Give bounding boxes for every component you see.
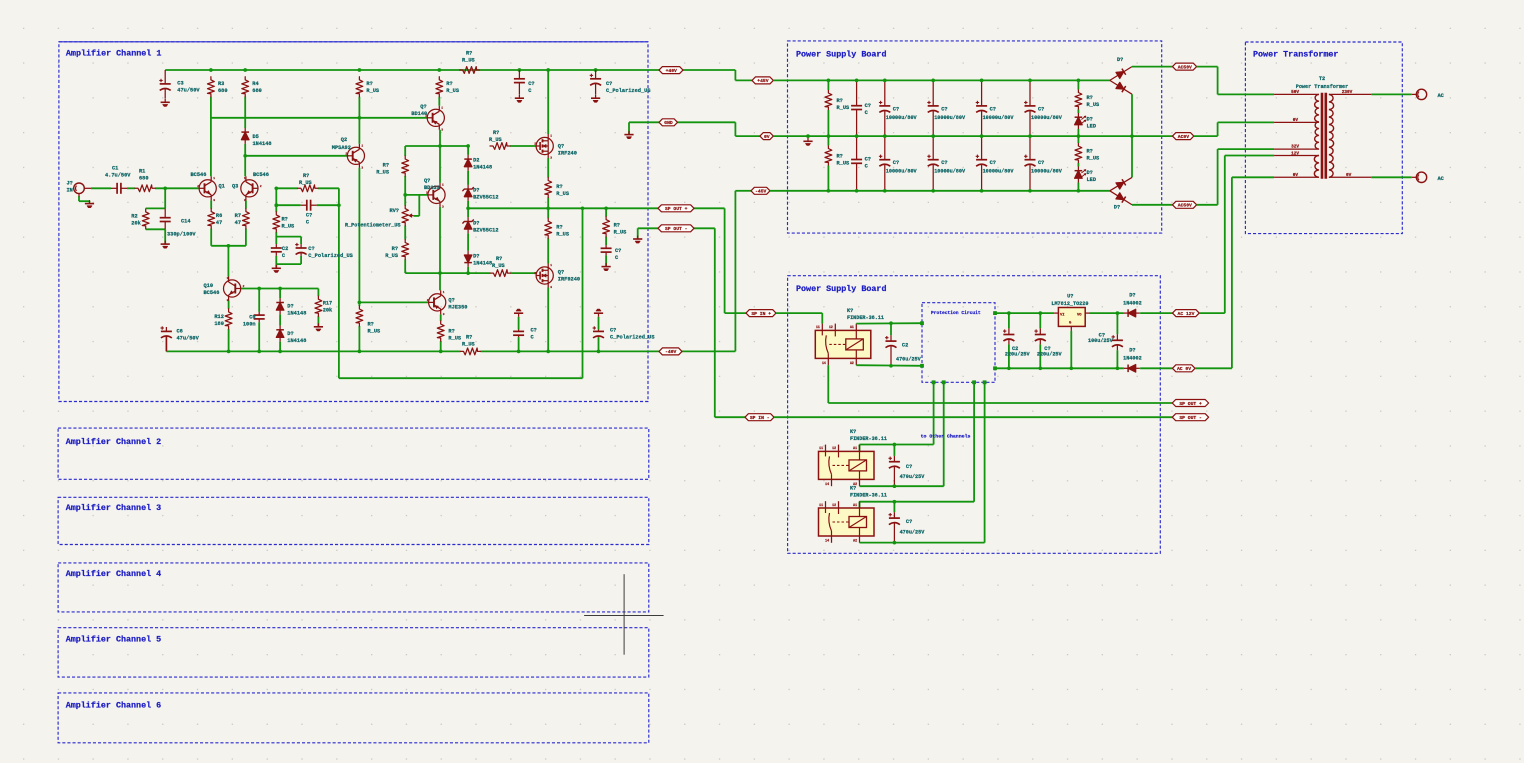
resistor R17 20k (315, 296, 333, 316)
svg-text:K?: K? (847, 308, 853, 314)
svg-text:Q1: Q1 (219, 183, 225, 189)
svg-text:C2: C2 (902, 342, 908, 348)
svg-text:1: 1 (550, 135, 552, 138)
wire AC 0V right (1195, 367, 1232, 369)
capacitor C8 feedback (301, 200, 317, 226)
svg-text:VI: VI (1060, 313, 1065, 317)
junction (227, 350, 231, 354)
hier label AC50V bottom (1173, 201, 1197, 208)
resistor R23 R_US led top (1075, 90, 1100, 110)
hier label AC50V top (1173, 63, 1197, 70)
wire (279, 289, 281, 299)
junction (1007, 311, 1011, 315)
svg-text:C1: C1 (112, 165, 118, 171)
junction (517, 350, 521, 354)
svg-text:R12: R12 (214, 314, 224, 320)
svg-text:C?: C? (528, 81, 534, 87)
wire GND to 0V (678, 121, 736, 123)
capacitor C3 47u/50V sym (159, 70, 200, 99)
hier label AC0V (1173, 133, 1194, 140)
wire +40V to +45V (683, 69, 735, 71)
svg-text:R_US: R_US (376, 169, 390, 175)
svg-text:FINDER-36.11: FINDER-36.11 (850, 436, 887, 442)
svg-text:+40V: +40V (666, 68, 677, 74)
junction (243, 68, 247, 72)
junction (827, 134, 831, 138)
wire (244, 144, 246, 176)
wire K3 coil bottom (860, 542, 985, 544)
wire (91, 187, 111, 189)
svg-text:680: 680 (139, 175, 149, 181)
wire (276, 187, 298, 189)
capacitor C1 4.7u/50V (105, 165, 131, 194)
svg-text:C?: C? (1038, 106, 1044, 112)
svg-text:AC: AC (1438, 93, 1445, 99)
junction (358, 301, 362, 305)
hier label SP OUT + right (1172, 400, 1208, 407)
junction (931, 189, 935, 193)
junction (227, 244, 231, 248)
svg-text:C2: C2 (282, 246, 288, 252)
wire (155, 187, 199, 189)
wire (440, 341, 442, 351)
svg-text:1N4148: 1N4148 (287, 311, 306, 317)
wire SP OUT+ to SP IN+ (694, 207, 725, 209)
svg-text:BD139: BD139 (424, 185, 440, 191)
svg-text:470u/25V: 470u/25V (900, 530, 926, 536)
svg-text:R?: R? (392, 246, 398, 252)
svg-text:Amplifier Channel 4: Amplifier Channel 4 (66, 569, 162, 579)
transistor Q7 BD140 (411, 104, 444, 131)
junction (1028, 189, 1032, 193)
svg-text:FINDER-36.11: FINDER-36.11 (847, 315, 884, 321)
ground on 0V rail (803, 138, 812, 146)
svg-text:C?: C? (615, 248, 621, 254)
junction (827, 189, 831, 193)
wire (258, 322, 260, 351)
hier label 0V (760, 133, 773, 140)
svg-text:R?: R? (614, 222, 620, 228)
svg-text:Amplifier Channel 5: Amplifier Channel 5 (66, 635, 162, 645)
svg-text:R_US: R_US (1087, 155, 1101, 161)
svg-text:C?: C? (865, 103, 871, 109)
wire (467, 171, 469, 185)
svg-text:R_US: R_US (556, 232, 570, 238)
svg-text:IN: IN (67, 187, 73, 193)
svg-text:R_US: R_US (614, 229, 628, 235)
sheet box Amplifier Channel 6 (58, 693, 649, 743)
junction (209, 68, 213, 72)
svg-text:SP IN +: SP IN + (751, 311, 771, 317)
wire rectifier center (1131, 94, 1133, 177)
wire (258, 289, 260, 312)
svg-text:R1: R1 (139, 168, 145, 174)
svg-text:C?: C? (941, 106, 947, 112)
svg-text:Q2: Q2 (341, 137, 347, 143)
svg-text:2: 2 (534, 272, 536, 275)
diode D2 1N4148 (464, 155, 492, 171)
svg-text:1: 1 (227, 277, 229, 280)
svg-text:T2: T2 (1319, 76, 1325, 82)
junction (546, 350, 550, 354)
wire AC50V to xfmr (1197, 66, 1218, 68)
wire (164, 229, 166, 243)
junction (1028, 79, 1032, 83)
wire SP OUT- drop (714, 228, 716, 417)
svg-text:Amplifier Channel 3: Amplifier Channel 3 (66, 503, 162, 513)
capacitor C21 10000u/80V top (879, 80, 918, 136)
diode D14 rectifier (1108, 174, 1134, 194)
hier label AC 12V (1173, 310, 1200, 317)
resistor R19 R_US feedback (298, 173, 318, 192)
svg-text:0V: 0V (1293, 173, 1299, 178)
svg-text:SP OUT +: SP OUT + (1179, 401, 1202, 407)
svg-text:2: 2 (534, 143, 536, 146)
wire (211, 117, 428, 119)
svg-text:Power Transformer: Power Transformer (1296, 84, 1348, 90)
svg-text:10000u/80V: 10000u/80V (1031, 115, 1063, 121)
svg-text:R?: R? (383, 162, 389, 168)
junction (358, 68, 362, 72)
wire (279, 342, 281, 352)
svg-text:R?: R? (1087, 95, 1093, 101)
wire (210, 229, 212, 246)
svg-text:10000u/80V: 10000u/80V (983, 169, 1015, 175)
svg-text:R_US: R_US (462, 58, 476, 64)
junction (257, 350, 261, 354)
wire (510, 145, 536, 147)
wire (318, 187, 339, 189)
svg-text:1: 1 (550, 264, 552, 267)
wire (827, 166, 829, 191)
wire reg gnd (1070, 331, 1072, 368)
svg-text:C3: C3 (177, 81, 183, 87)
junction (893, 443, 897, 447)
wire (317, 289, 319, 297)
resistor R3 680 (208, 77, 228, 97)
connector J1 IN (67, 180, 92, 196)
wire (598, 317, 600, 330)
relay K1 FINDER-36.11 (815, 308, 884, 365)
wire -40V out (682, 350, 735, 352)
wire rise to 32V pin (1217, 149, 1219, 205)
hier label SP IN - (745, 414, 774, 421)
capacitor C4 bypass (514, 70, 535, 95)
junction (893, 500, 897, 504)
wire K1 coil top to protection (856, 322, 922, 324)
wire (547, 208, 549, 218)
wire (300, 237, 302, 245)
wire (1077, 80, 1079, 89)
svg-text:C?: C? (865, 157, 871, 163)
wire SP OUT+ drop (724, 208, 726, 313)
svg-text:680: 680 (218, 88, 228, 94)
wire primary bottom (1371, 176, 1411, 178)
svg-text:220u/25V: 220u/25V (1005, 352, 1031, 358)
junction (466, 271, 470, 275)
svg-text:AC0V: AC0V (1178, 134, 1189, 140)
wire (1077, 136, 1079, 143)
svg-text:C?: C? (893, 106, 899, 112)
wire (275, 232, 277, 244)
svg-text:C14: C14 (181, 219, 191, 225)
capacitor C13 470u/25V (885, 335, 921, 366)
wire C15 top (1039, 313, 1041, 328)
wire into -45V label (735, 190, 751, 192)
wire (275, 264, 277, 268)
svg-text:MPSA92: MPSA92 (332, 145, 351, 151)
junction (855, 79, 859, 83)
svg-text:R?: R? (448, 328, 454, 334)
wire (358, 168, 360, 303)
transformer T2 pins (1274, 90, 1371, 178)
wire (358, 302, 360, 306)
capacitor C25 psu bottom (851, 136, 871, 191)
svg-text:47u/50V: 47u/50V (177, 88, 200, 94)
svg-text:A1: A1 (853, 503, 857, 507)
resistor R9 R_US bias2 (385, 240, 408, 260)
junction (337, 203, 341, 207)
ground at input jack (85, 200, 94, 208)
wire C16 bottom (1116, 350, 1118, 368)
capacitor C24 10000u/80V top (1024, 80, 1063, 136)
capacitor C16 100u/25V (1088, 333, 1123, 351)
svg-text:BC546: BC546 (204, 290, 220, 296)
wire (79, 200, 90, 202)
junction (931, 134, 935, 138)
svg-text:680: 680 (252, 88, 262, 94)
wire K2 stub (859, 445, 861, 452)
svg-text:R_US: R_US (492, 263, 506, 269)
sheet box Power Supply Board 2 (788, 276, 1161, 554)
svg-text:D?: D? (473, 253, 479, 259)
global label SP OUT + (658, 205, 694, 212)
wire (279, 314, 281, 325)
wire (275, 256, 277, 264)
wire (827, 110, 829, 136)
resistor R7 R_US rail (460, 51, 480, 74)
svg-text:10000u/80V: 10000u/80V (934, 169, 966, 175)
cursor crosshair (584, 574, 664, 655)
sheet pin (993, 366, 997, 370)
svg-text:12: 12 (829, 325, 833, 329)
wire (146, 207, 166, 209)
relay K2 FINDER-36.11 (819, 429, 888, 486)
regulator U7 LM7812_TO220 (1051, 293, 1089, 331)
sheet box Amplifier Channel 2 (58, 428, 649, 479)
capacitor C20 psu top (851, 80, 871, 136)
wire (440, 314, 442, 321)
svg-text:R?: R? (1087, 148, 1093, 154)
svg-text:LM7812_TO220: LM7812_TO220 (1051, 301, 1088, 307)
wire (1077, 183, 1079, 191)
wire into SP IN- label (715, 416, 745, 418)
svg-text:LED: LED (1087, 177, 1097, 183)
svg-text:14: 14 (825, 539, 829, 543)
svg-text:to Other Channels: to Other Channels (921, 434, 971, 440)
svg-text:D2: D2 (473, 157, 479, 163)
svg-text:C?: C? (990, 106, 996, 112)
wire (244, 97, 246, 128)
junction (278, 350, 282, 354)
junction (1038, 311, 1042, 315)
LED D11 bottom (1075, 167, 1096, 183)
svg-text:AC50V: AC50V (1178, 203, 1192, 209)
svg-text:AC 0V: AC 0V (1177, 366, 1191, 372)
svg-text:0V: 0V (1346, 173, 1352, 178)
wire into 0V label (735, 135, 760, 137)
junction (1130, 134, 1134, 138)
ground below C2 (272, 265, 281, 273)
wire SP IN - to SP OUT - (774, 416, 1172, 418)
svg-text:R_US: R_US (489, 137, 503, 143)
svg-text:D?: D? (473, 220, 479, 226)
diode D15 rectifier (1108, 188, 1134, 208)
junction (1038, 366, 1042, 370)
wire 0V pin (1218, 121, 1275, 123)
svg-text:D?: D? (287, 331, 293, 337)
wire (1077, 110, 1079, 114)
wire (146, 228, 166, 230)
svg-text:R?: R? (446, 81, 452, 87)
svg-text:R?: R? (837, 98, 843, 104)
wire (418, 195, 420, 216)
svg-text:R_US: R_US (282, 223, 296, 229)
svg-text:3: 3 (550, 286, 552, 289)
wire 12V pin (1225, 155, 1274, 157)
capacitor C17 220u/25V (1003, 328, 1030, 357)
svg-text:2: 2 (197, 185, 199, 188)
wire (518, 317, 520, 330)
junction (597, 350, 601, 354)
ground at GND label (624, 131, 633, 139)
resistor R6 47 (208, 209, 222, 229)
svg-text:C?: C? (893, 160, 899, 166)
svg-text:10000u/80V: 10000u/80V (886, 115, 918, 121)
hier label SP OUT - right (1172, 414, 1208, 421)
wire (404, 226, 406, 240)
wire (127, 187, 135, 189)
junction (278, 287, 282, 291)
svg-text:R_US: R_US (446, 88, 460, 94)
junction (581, 206, 585, 210)
svg-text:1N4148: 1N4148 (473, 260, 492, 266)
resistor R4 680 (242, 77, 262, 97)
svg-text:C_Polarized_US: C_Polarized_US (610, 334, 655, 340)
svg-text:C?: C? (906, 464, 912, 470)
svg-text:3: 3 (550, 157, 552, 160)
svg-text:D?: D? (1114, 204, 1120, 210)
wire (339, 377, 583, 379)
transistor Q10 BC546 (204, 277, 245, 303)
svg-text:R?: R? (837, 153, 843, 159)
wire (628, 122, 630, 134)
resistor R25 R_US led bottom (1075, 143, 1100, 163)
svg-text:3: 3 (361, 166, 363, 169)
junction (931, 79, 935, 83)
junction (604, 206, 608, 210)
wire (405, 194, 428, 196)
wire (439, 146, 441, 183)
svg-text:SP OUT -: SP OUT - (1179, 415, 1202, 421)
svg-text:D?: D? (287, 304, 293, 310)
wire (228, 329, 230, 352)
svg-text:R?: R? (368, 321, 374, 327)
wire (637, 228, 639, 238)
wire C14 top (1008, 313, 1010, 328)
svg-text:K?: K? (850, 486, 856, 492)
connector J2 AC top (1412, 89, 1445, 99)
svg-text:3: 3 (442, 205, 444, 208)
junction (1116, 311, 1120, 315)
wire prot pin4 down (984, 382, 986, 542)
resistor R18 R_US zobel (603, 217, 627, 237)
junction (893, 541, 897, 545)
ground above C12 (594, 309, 603, 317)
wire AC0V to xfmr (1194, 135, 1218, 137)
capacitor C29 10000u/80V bottom (1024, 136, 1063, 191)
transistor Q5 IRF9240 (534, 264, 580, 290)
resistor R20 R_US fb2 (273, 212, 295, 232)
svg-text:SP IN -: SP IN - (750, 415, 770, 421)
wire prot pin1 down (933, 382, 935, 444)
svg-text:C?: C? (308, 246, 314, 252)
svg-text:47u/50V: 47u/50V (177, 335, 200, 341)
LED D10 top (1075, 113, 1096, 129)
svg-text:1: 1 (443, 291, 445, 294)
wire to AC 0V (1140, 367, 1172, 369)
svg-text:12V: 12V (1291, 151, 1299, 156)
wire C15 bottom (1039, 344, 1041, 368)
sheet Protection Circuit (922, 303, 995, 383)
svg-text:2: 2 (260, 185, 262, 188)
junction (358, 350, 362, 354)
sheet pin (920, 364, 924, 368)
svg-text:230V: 230V (1342, 90, 1353, 95)
junction (893, 484, 897, 488)
global label GND (659, 119, 678, 126)
capacitor C22 10000u/80V top (927, 80, 966, 136)
resistor R5 R_US (356, 77, 380, 97)
svg-text:R?: R? (282, 216, 288, 222)
junction (855, 189, 859, 193)
capacitor C10 C_Polarized_US (295, 243, 353, 259)
svg-text:R6: R6 (216, 213, 222, 219)
wire (210, 200, 212, 208)
svg-text:1: 1 (213, 177, 215, 180)
wire (164, 188, 166, 208)
sheet pin (932, 380, 936, 384)
wire (358, 326, 360, 351)
wire K1 coil bottom to protection (856, 364, 922, 367)
sheet pin (920, 321, 924, 325)
junction (438, 144, 442, 148)
wire 0V rail (773, 135, 1172, 137)
wire C2 top (890, 323, 892, 335)
svg-text:11: 11 (816, 325, 820, 329)
svg-text:D?: D? (473, 187, 479, 193)
junction (1116, 366, 1120, 370)
svg-text:R7: R7 (235, 213, 241, 219)
wire SP OUT- out (694, 227, 715, 229)
svg-text:D?: D? (1129, 348, 1135, 354)
wire (605, 255, 607, 266)
junction (257, 287, 261, 291)
wire GND drop (734, 122, 736, 136)
wire (276, 263, 301, 265)
transformer T2 core (1322, 93, 1326, 179)
svg-text:C?: C? (906, 519, 912, 525)
